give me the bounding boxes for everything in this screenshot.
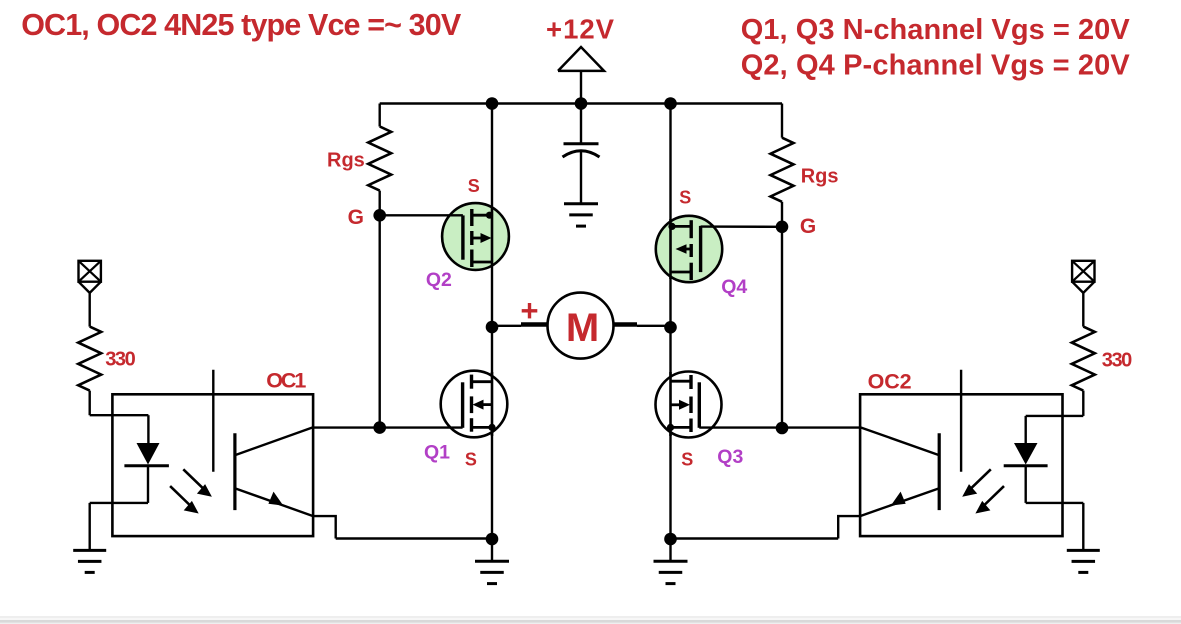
svg-text:Q1: Q1 (424, 442, 450, 464)
svg-text:S: S (681, 450, 693, 470)
svg-text:330: 330 (105, 348, 136, 370)
svg-text:Q3: Q3 (717, 446, 743, 468)
svg-text:S: S (465, 450, 477, 470)
svg-text:Q2: Q2 (426, 269, 452, 291)
svg-text:Q2, Q4 P-channel Vgs = 20V: Q2, Q4 P-channel Vgs = 20V (741, 49, 1131, 81)
svg-text:G: G (348, 206, 364, 229)
svg-text:S: S (679, 187, 691, 207)
svg-text:330: 330 (1102, 349, 1133, 371)
svg-text:+12V: +12V (546, 13, 615, 44)
svg-text:S: S (468, 176, 480, 196)
svg-text:G: G (800, 215, 816, 238)
svg-text:OC1: OC1 (266, 368, 306, 392)
svg-text:OC1, OC2 4N25 type Vce =~ 30V: OC1, OC2 4N25 type Vce =~ 30V (21, 8, 462, 42)
svg-text:Rgs: Rgs (327, 150, 365, 172)
svg-text:Rgs: Rgs (801, 166, 839, 188)
svg-text:Q1, Q3 N-channel Vgs = 20V: Q1, Q3 N-channel Vgs = 20V (741, 14, 1131, 46)
svg-text:Q4: Q4 (721, 276, 747, 298)
svg-text:M: M (566, 306, 599, 350)
svg-text:OC2: OC2 (868, 370, 912, 394)
